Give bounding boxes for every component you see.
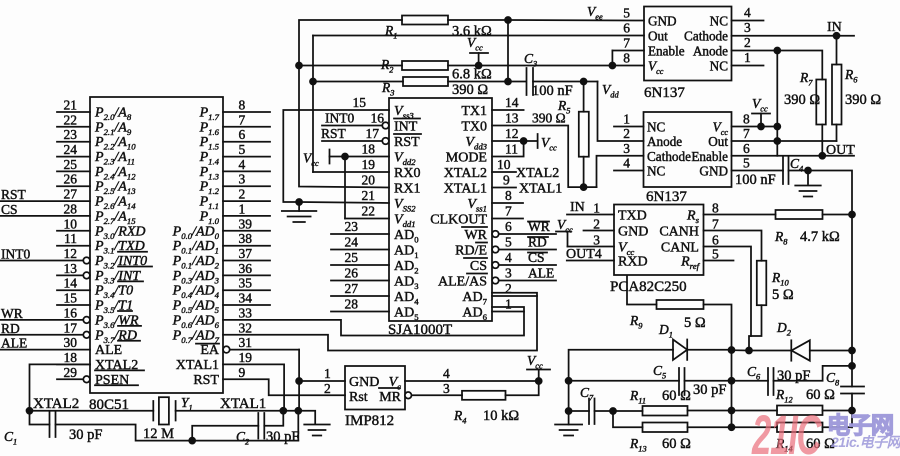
wire R4 right to Vcc — [506, 381, 539, 395]
svg-text:11: 11 — [505, 142, 518, 157]
resistor R10 — [757, 261, 767, 306]
svg-text:D1​: D1​ — [658, 322, 673, 340]
wire 6N137b pin4 NC stub — [614, 170, 644, 172]
wire 80C51 left pin 30 — [1, 349, 91, 351]
svg-text:AD4​: AD4​ — [394, 290, 419, 307]
svg-text:RX0: RX0 — [394, 166, 420, 181]
wire Out row to R6 bottom — [822, 140, 836, 142]
wire 80C51 left pin 12 — [1, 260, 84, 262]
underline PSEN — [95, 384, 138, 386]
svg-text:TXD: TXD — [618, 209, 647, 224]
wire pin8 to junction — [761, 126, 777, 128]
wire Vcc vertical — [776, 51, 778, 127]
svg-text:4: 4 — [744, 5, 751, 20]
underline WR — [118, 325, 141, 327]
svg-text:Cathode: Cathode — [647, 149, 691, 164]
junction OUT node — [819, 153, 825, 159]
svg-text:6: 6 — [505, 219, 512, 234]
svg-text:32: 32 — [239, 320, 253, 335]
wire SJA AD3 pin26 stub — [331, 280, 389, 282]
wire vertical to Out row — [776, 127, 778, 142]
resistor R7 — [816, 80, 826, 125]
ground symbol top-left — [282, 210, 317, 212]
wire R5 bottom lead — [583, 157, 585, 187]
svg-text:19: 19 — [362, 157, 376, 172]
svg-text:IMP812: IMP812 — [345, 413, 394, 429]
svg-text:GND: GND — [349, 375, 379, 390]
svg-text:ALE: ALE — [528, 266, 554, 281]
junction Vcc node — [536, 378, 542, 384]
svg-text:6N137: 6N137 — [644, 85, 685, 101]
wire C7 right — [595, 410, 614, 412]
svg-text:12: 12 — [64, 246, 78, 261]
junction C5 rail left — [566, 378, 572, 384]
wire 80C51 left pin 27 — [1, 200, 91, 202]
wire 80C51 right pin 3 stub — [223, 185, 270, 187]
svg-text:8: 8 — [623, 51, 630, 66]
Vcc bar pins 12-11 — [537, 134, 539, 148]
wire D2 to right vertical — [810, 350, 852, 352]
svg-text:AD3​: AD3​ — [394, 275, 419, 292]
wire to D2 — [749, 350, 791, 352]
svg-text:R5​: R5​ — [557, 98, 570, 116]
junction Vcc stem — [476, 63, 482, 69]
junction R8/right vertical — [849, 212, 855, 218]
svg-text:AD2​: AD2​ — [394, 259, 419, 276]
svg-text:TX0: TX0 — [461, 120, 487, 135]
underline T1 — [118, 310, 132, 312]
svg-text:28: 28 — [64, 201, 78, 216]
wire R3 right to C3 — [448, 81, 526, 83]
junction CANL/diode line — [746, 348, 752, 354]
svg-text:2: 2 — [623, 126, 630, 141]
wire Vdd down to 6N137b Anode — [598, 82, 644, 142]
junction R13/R14 node — [729, 424, 735, 430]
wire R8 right — [823, 214, 853, 216]
svg-text:R1​: R1​ — [384, 23, 397, 41]
overline EA — [196, 343, 219, 345]
junction Vdd2/Vdd1 — [342, 154, 348, 160]
wire MODE pin11 up to pin12 — [492, 141, 524, 157]
svg-text:XTAL2: XTAL2 — [33, 396, 79, 412]
svg-text:13: 13 — [505, 111, 519, 126]
crystal Y1 12M — [152, 401, 154, 421]
wire SJA AD0 pin23 stub — [331, 233, 389, 235]
bubble MR pin3 — [405, 392, 412, 399]
svg-text:60 Ω: 60 Ω — [662, 436, 691, 452]
bubble pin 17 — [83, 332, 90, 339]
svg-text:22: 22 — [362, 204, 376, 219]
svg-text:R6​: R6​ — [844, 67, 858, 85]
wire down to C3 node — [507, 20, 509, 82]
svg-text:15: 15 — [353, 95, 367, 110]
wire Vdd3 pin12 — [492, 140, 524, 142]
svg-text:6N137: 6N137 — [646, 189, 687, 205]
svg-text:PCA82C250: PCA82C250 — [610, 279, 687, 295]
junction ground node — [296, 199, 302, 205]
wire CLKOUT pin7 stub — [492, 218, 523, 220]
svg-text:CANL: CANL — [661, 241, 699, 256]
wire R1 left / divider to RX1 pin20 — [299, 20, 402, 188]
svg-text:R13​: R13​ — [629, 436, 647, 454]
wire to Vcc bar — [524, 140, 538, 142]
svg-text:AD0​: AD0​ — [394, 228, 419, 245]
svg-text:10: 10 — [497, 157, 511, 172]
bubble pin 31 — [223, 346, 230, 353]
wire 80C51 right pin 8 stub — [223, 111, 270, 113]
wire 80C51 right pin 2 stub — [223, 200, 270, 202]
svg-text:7: 7 — [712, 217, 719, 232]
wire 80C51 left pin 18 — [57, 363, 90, 365]
wire junction to CANL node — [732, 349, 750, 351]
junction R12/right vertical — [849, 408, 855, 414]
svg-text:Vcc​: Vcc​ — [303, 151, 319, 169]
svg-text:5: 5 — [712, 247, 719, 262]
wire Vss1 pin8 stub — [492, 202, 523, 204]
svg-text:ALE: ALE — [95, 343, 122, 358]
svg-text:XTAL1: XTAL1 — [220, 396, 266, 412]
wire R2 right to 6N137a pin8 Vcc — [448, 65, 644, 67]
svg-text:4.7 kΩ: 4.7 kΩ — [800, 229, 840, 245]
svg-text:XTAL1: XTAL1 — [444, 182, 487, 197]
svg-text:6: 6 — [623, 21, 630, 36]
wire 80C51 left pin 16 — [1, 319, 84, 321]
svg-text:C6​: C6​ — [747, 364, 761, 382]
wire R6 bottom lead — [836, 125, 838, 142]
overline E inside — [476, 242, 487, 244]
wire CANL pin6 down — [704, 247, 752, 337]
bubble pin16 — [382, 122, 389, 129]
svg-text:8: 8 — [505, 188, 512, 203]
wire 80C51 left pin 14 — [57, 289, 90, 291]
wire Vdd node to anode corner — [584, 81, 598, 83]
wire SJA AD4 pin27 stub — [331, 295, 389, 297]
wire 80C51 left pin 26 — [57, 185, 90, 187]
junction R3 left — [310, 79, 316, 85]
capacitor C1 — [49, 412, 51, 437]
svg-text:8: 8 — [712, 201, 719, 216]
svg-text:MODE: MODE — [446, 151, 487, 166]
wire PCA pin2 GND stub — [584, 230, 615, 232]
wire center vertical lower — [731, 411, 733, 428]
svg-text:34: 34 — [239, 291, 253, 306]
svg-text:CS: CS — [1, 202, 18, 217]
wire XTAL1 pin9 stub — [492, 187, 516, 189]
capacitor C3 — [526, 68, 528, 95]
junction GND/EA vertical — [296, 378, 302, 384]
wire net AD6: P0.6 to SJA AD6 — [223, 307, 524, 336]
svg-text:26: 26 — [345, 266, 359, 281]
MCU U1 80C51 box — [90, 97, 223, 393]
reset chip U5 IMP812 box — [345, 366, 405, 410]
svg-text:Rst: Rst — [349, 390, 368, 405]
svg-text:GND: GND — [648, 14, 677, 29]
svg-text:3: 3 — [623, 141, 630, 156]
svg-text:C2​: C2​ — [236, 429, 249, 447]
svg-text:4: 4 — [623, 156, 630, 171]
wire 80C51 right pin 38 stub — [223, 245, 270, 247]
svg-text:Vdd​: Vdd​ — [602, 82, 619, 100]
wire 6N137b pin7 Out to R7 lead — [732, 140, 823, 142]
wire ALE pin3 — [499, 280, 556, 282]
svg-text:21: 21 — [362, 188, 376, 203]
svg-text:3: 3 — [505, 266, 512, 281]
wire jog down to R13 — [613, 411, 643, 427]
svg-text:1: 1 — [593, 201, 600, 216]
wire crystal to node B — [176, 410, 284, 412]
svg-text:NC: NC — [710, 14, 729, 29]
wire 80C51 right pin 35 stub — [223, 289, 270, 291]
wire 6N137a pin6 Out long wire — [313, 35, 644, 37]
junction IN node — [834, 33, 840, 39]
junction ground rail / C2 branch — [189, 438, 195, 444]
svg-text:9: 9 — [239, 365, 246, 380]
wire 80C51 left pin 24 — [57, 156, 90, 158]
svg-text:100 nF: 100 nF — [532, 83, 573, 99]
svg-text:23: 23 — [345, 219, 359, 234]
wire R13 right — [688, 426, 732, 428]
svg-text:RD: RD — [1, 321, 20, 336]
junction node A — [27, 408, 33, 414]
svg-text:37: 37 — [239, 246, 253, 261]
wire C3 right to Vdd node — [533, 81, 584, 83]
wire AD7 pin2 — [492, 295, 537, 297]
wire 80C51 right pin 4 stub — [223, 170, 270, 172]
svg-text:2: 2 — [505, 281, 512, 296]
svg-text:30 pF: 30 pF — [777, 368, 810, 384]
wire TX1 pin14 stub — [492, 109, 524, 111]
svg-text:Enable: Enable — [691, 149, 728, 164]
wire IMP812 pin4 Vc to Vcc — [405, 380, 539, 382]
svg-text:RST: RST — [321, 126, 347, 141]
junction R5 top / Vdd — [581, 79, 587, 85]
wire RST pin17 — [322, 140, 382, 142]
wire 6N137a pin1 NC stub — [732, 65, 764, 67]
junction R5 bottom / TX0 net — [581, 184, 587, 190]
svg-text:WR: WR — [464, 228, 487, 243]
svg-text:IN: IN — [570, 200, 585, 215]
overline MR — [379, 387, 400, 389]
resistor R8 — [776, 210, 823, 219]
svg-text:AD6​: AD6​ — [462, 306, 487, 323]
svg-text:6.8 kΩ: 6.8 kΩ — [452, 67, 492, 83]
junction C6 jog — [849, 363, 855, 369]
svg-text:2: 2 — [239, 187, 246, 202]
svg-text:R2​: R2​ — [380, 57, 393, 75]
wire to C7 — [569, 410, 589, 412]
svg-text:28: 28 — [345, 297, 359, 312]
wire C1 right to ground rail — [56, 425, 193, 441]
wire EA pin31 to ground vertical — [230, 349, 299, 351]
svg-text:Vss1​: Vss1​ — [467, 197, 487, 214]
bubble pin 13 — [83, 272, 90, 279]
svg-text:14: 14 — [64, 276, 78, 291]
svg-text:D2​: D2​ — [776, 320, 791, 338]
bubble pin 4 — [492, 262, 499, 269]
overline CS inside — [464, 257, 487, 259]
wire Vdd2 pin18 — [330, 156, 390, 158]
wire R10 bottom jog — [749, 305, 762, 350]
svg-text:Anode: Anode — [647, 134, 682, 149]
overline WR inside — [462, 226, 487, 228]
overline WR net — [528, 221, 549, 223]
resistor R9 — [657, 300, 704, 309]
svg-text:5 Ω: 5 Ω — [684, 315, 706, 331]
resistor R3 — [403, 77, 448, 86]
svg-text:CLKOUT: CLKOUT — [430, 213, 487, 228]
wire C5 to center vertical — [685, 380, 732, 382]
resistor R6 — [832, 65, 842, 125]
CAN controller U2 SJA1000T box — [389, 98, 492, 321]
wire PCA pin1 TXD IN net — [567, 214, 614, 216]
svg-text:NC: NC — [710, 59, 729, 74]
resistor R1 — [402, 16, 448, 25]
wire 80C51 right pin 34 stub — [223, 304, 270, 306]
capacitor C2 — [257, 413, 259, 439]
wire up to C2 — [192, 426, 258, 441]
junction Enable/Vcc — [609, 63, 615, 69]
svg-text:6: 6 — [239, 127, 246, 142]
wire Rs pin8 to R8 — [704, 214, 776, 216]
wire EA/GND vertical — [298, 350, 300, 411]
svg-text:C3​: C3​ — [524, 51, 537, 69]
optocoupler U3 6N137 box — [644, 7, 732, 81]
wire jog to ground — [298, 411, 315, 424]
wire 6N137a pin3 Cathode IN net — [732, 35, 855, 37]
svg-text:AD7​: AD7​ — [462, 290, 487, 307]
wire SJA AD2 pin25 stub — [331, 264, 389, 266]
svg-text:30 pF: 30 pF — [266, 429, 299, 445]
svg-text:35: 35 — [239, 276, 253, 291]
svg-text:RST: RST — [1, 187, 27, 202]
wire left riser mid — [568, 381, 570, 411]
capacitor C5 — [678, 368, 680, 395]
svg-text:5: 5 — [239, 142, 246, 157]
svg-text:Out: Out — [708, 134, 728, 149]
svg-text:38: 38 — [239, 231, 253, 246]
wire 6N137a pin4 NC stub — [732, 20, 764, 22]
wire PCA pin4 RXD OUT net — [567, 260, 614, 262]
junction Vcc/pin8 — [774, 124, 780, 130]
wire Vss3 pin15 jog to ground node — [283, 110, 389, 202]
wire CANH pin7 to R10 — [704, 231, 762, 261]
ground symbol near crystal — [304, 424, 330, 426]
wire node A to crystal — [30, 410, 154, 412]
wire 6N137a pin7 Enable — [612, 50, 644, 52]
capacitor C6 — [767, 368, 769, 395]
svg-text:Vee​: Vee​ — [587, 4, 603, 22]
wire vertical to RX0 — [312, 36, 314, 173]
svg-text:18: 18 — [64, 350, 78, 365]
svg-text:20: 20 — [362, 173, 376, 188]
bubble pin 29 — [83, 376, 90, 383]
svg-text:INT: INT — [394, 120, 418, 135]
svg-text:Anode: Anode — [693, 44, 728, 59]
wire right vertical bottom — [851, 411, 853, 428]
wire node A down to C1 — [30, 411, 50, 425]
wire R9 right down to diode line — [704, 305, 732, 351]
svg-text:390 Ω: 390 Ω — [452, 82, 488, 98]
svg-text:2: 2 — [744, 35, 751, 50]
svg-text:30 pF: 30 pF — [69, 427, 102, 443]
junction C4/ground — [805, 168, 811, 174]
wire R3 left lead — [313, 81, 403, 83]
svg-text:390 Ω: 390 Ω — [784, 92, 820, 108]
wire 80C51 right pin 5 stub — [223, 156, 270, 158]
svg-text:RX1: RX1 — [394, 182, 420, 197]
wire left riser to ground — [568, 411, 570, 425]
wire SJA AD1 pin24 stub — [331, 249, 389, 251]
wire 80C51 right pin 37 stub — [223, 260, 270, 262]
svg-text:15: 15 — [64, 291, 78, 306]
svg-text:R4​: R4​ — [453, 408, 466, 426]
svg-text:11: 11 — [64, 231, 77, 246]
svg-text:Rref​: Rref​ — [680, 255, 700, 272]
bubble pin 16 — [83, 317, 90, 324]
wire OUT net right — [822, 155, 854, 157]
wire Vss2 pin21 to ground node — [299, 202, 389, 203]
svg-text:39: 39 — [239, 216, 253, 231]
wire R7 bottom lead through Out row to OUT dot — [821, 125, 823, 156]
wire 6N137b pin1 NC stub — [614, 126, 644, 128]
wire ground stem — [298, 202, 300, 211]
svg-text:RD/E: RD/E — [455, 244, 487, 259]
svg-text:19: 19 — [239, 350, 253, 365]
wire 6N137b pin8 Vcc — [732, 126, 762, 128]
wire Vcc down to Vdd1 — [344, 157, 346, 219]
bubble pin 12 — [83, 257, 90, 264]
svg-text:WR: WR — [1, 306, 23, 321]
svg-text:EA: EA — [200, 343, 220, 358]
svg-text:INT0: INT0 — [325, 111, 354, 126]
overline AS inside — [467, 273, 487, 275]
svg-text:12 M: 12 M — [143, 426, 174, 442]
optocoupler U4 6N137 box (lower) — [644, 112, 732, 187]
svg-text:Vcc​: Vcc​ — [648, 59, 664, 77]
svg-text:Vcc​: Vcc​ — [752, 96, 768, 114]
svg-text:R7​: R7​ — [799, 70, 813, 88]
resistor R2 — [402, 61, 448, 70]
wire C6 jog to right vertical — [774, 366, 853, 381]
svg-text:Cathode: Cathode — [684, 29, 728, 44]
wire Enable tie to Vcc — [611, 51, 613, 66]
svg-text:Vcc​: Vcc​ — [541, 135, 557, 153]
ground symbol bottom left of CAN section — [555, 424, 582, 426]
wire 6N137a pin2 Anode to R7 — [732, 51, 823, 80]
wire 80C51 left pin 10 — [57, 230, 90, 232]
wire R5 top lead — [583, 82, 585, 112]
svg-text:100 nF: 100 nF — [735, 172, 776, 188]
svg-text:26: 26 — [64, 172, 78, 187]
underline INT0 — [118, 266, 152, 268]
svg-text:5: 5 — [743, 156, 750, 171]
svg-text:CS: CS — [470, 259, 487, 274]
svg-text:3: 3 — [443, 381, 450, 396]
svg-text:4: 4 — [239, 157, 246, 172]
svg-text:8: 8 — [743, 112, 750, 127]
svg-text:10: 10 — [64, 216, 78, 231]
junction at Out row — [774, 138, 780, 144]
junction C5/C6 node — [729, 378, 735, 384]
wire RX0 pin19 — [313, 171, 389, 173]
svg-text:12: 12 — [505, 126, 519, 141]
wire 6N137b pin5 GND to C4 — [732, 170, 784, 172]
svg-text:8: 8 — [239, 98, 246, 113]
underline INT — [118, 280, 143, 282]
svg-text:7: 7 — [239, 112, 246, 127]
svg-text:R8​: R8​ — [774, 229, 788, 247]
svg-text:CANH: CANH — [659, 225, 699, 240]
